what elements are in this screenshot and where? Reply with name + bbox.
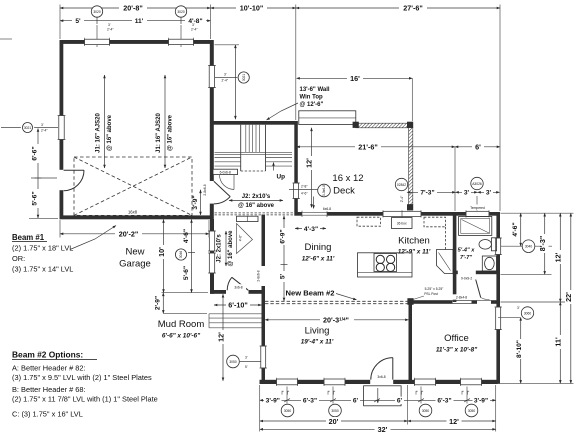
wall note 13'-6" Wall Win Top @ 12'-6": [267, 87, 330, 120]
svg-text:11'-3" x 10'-8": 11'-3" x 10'-8": [436, 347, 478, 354]
window tag 3050 c: [419, 404, 432, 417]
svg-text:New: New: [125, 247, 144, 258]
mud room bench: [237, 216, 259, 221]
dim 4'-3" (dining): [295, 225, 326, 233]
svg-text:6': 6': [353, 398, 359, 405]
svg-text:4'-8": 4'-8": [188, 18, 202, 25]
stair left run treads: [215, 158, 241, 167]
closet door under stairs: [219, 175, 234, 190]
J1 joist arrow 1: [96, 75, 114, 168]
svg-text:3'-9": 3'-9": [192, 195, 199, 209]
bath bottom wall: [453, 271, 500, 275]
front stoop: [364, 386, 402, 406]
dim row 5' / 11' / 4'-8": [60, 17, 211, 26]
mud room door: [226, 277, 249, 294]
svg-text:(3) 1.75" x 9.5" LVL with (2): (3) 1.75" x 9.5" LVL with (2) 1" Steel P…: [12, 373, 152, 382]
mud room left wall: [210, 219, 214, 294]
garage right wall: [210, 40, 214, 219]
window 1 size labels 3' 2'-4": [107, 23, 114, 32]
extension line garage right: [210, 5, 212, 40]
svg-text:5': 5': [279, 273, 286, 279]
living left wall: [262, 294, 266, 381]
bath door leaf: [476, 280, 490, 300]
breezeway dashed beam: [215, 213, 295, 215]
svg-text:6x6-8: 6x6-8: [323, 207, 331, 211]
kitchen label: [398, 236, 431, 256]
living bottom window 1: [277, 378, 298, 386]
svg-text:3': 3': [192, 23, 195, 27]
kitchen dashed counter run: [445, 227, 447, 250]
bath sink vanity: [482, 256, 496, 271]
office label: [436, 333, 478, 354]
svg-text:02842: 02842: [397, 183, 406, 187]
mud room label: [158, 319, 205, 340]
bottom ext right: [495, 385, 497, 432]
bath partition wall: [453, 212, 457, 274]
deck slider tag circle: [289, 184, 330, 208]
svg-text:Tempered: Tempered: [470, 206, 485, 210]
fridge box: [392, 218, 413, 229]
svg-text:@ 16" above: @ 16" above: [168, 114, 174, 151]
kitchen window (top wall): [383, 210, 421, 217]
garage side door (left wall): [59, 170, 84, 191]
svg-text:Win Top: Win Top: [300, 95, 323, 101]
dim 6'-10" (mud room): [214, 301, 262, 310]
svg-text:20'-8": 20'-8": [123, 4, 143, 13]
rail tag circle: [395, 178, 407, 190]
garage left window size labels: [41, 123, 48, 133]
svg-text:27'-6": 27'-6": [403, 4, 423, 13]
svg-text:20': 20': [329, 417, 339, 426]
dim 8'-10" (office right): [516, 317, 525, 383]
svg-text:(2) 1.75" x 11 7/8" LVL with (: (2) 1.75" x 11 7/8" LVL with (1) 1" Stee…: [12, 395, 158, 404]
extension line house top-left corner: [295, 5, 297, 121]
svg-text:Garage: Garage: [119, 259, 151, 270]
stairs dashed cut line: [241, 170, 266, 172]
svg-text:3050: 3050: [422, 409, 430, 413]
top-left tick: [0, 38, 12, 40]
garage top wall: [60, 40, 214, 44]
svg-text:3': 3': [517, 306, 520, 310]
slider window in deck-left wall: [292, 183, 300, 199]
svg-text:New Beam #2: New Beam #2: [286, 289, 335, 298]
svg-text:J1: 16" AJS20: J1: 16" AJS20: [96, 113, 102, 153]
svg-text:(2) 1.75" x 18" LVL: (2) 1.75" x 18" LVL: [12, 244, 73, 253]
svg-text:12': 12': [449, 417, 459, 426]
dim 11' (office right): [554, 302, 565, 383]
garage door dashed panel: [74, 157, 192, 215]
svg-text:Up: Up: [277, 174, 286, 181]
svg-text:2-8x6-8: 2-8x6-8: [257, 270, 261, 281]
window tag 3020 (garage window 2): [175, 6, 186, 47]
svg-text:6'-6" x 10'-6": 6'-6" x 10'-6": [162, 333, 201, 340]
beam #1 leader arrow: [70, 226, 116, 250]
bath right window: [495, 238, 503, 255]
stair right run treads: [266, 158, 293, 167]
svg-text:2-8x6-8: 2-8x6-8: [203, 184, 207, 195]
svg-text:11': 11': [554, 337, 563, 347]
dim 12' (living left): [216, 294, 227, 381]
kitchen upper cabinets dashed 1: [357, 217, 381, 226]
right ext bath wall: [501, 273, 552, 275]
J1 joist arrow 2: [156, 75, 174, 168]
dim 16' (deck top): [297, 74, 413, 121]
svg-text:6'-10": 6'-10": [228, 301, 248, 310]
svg-text:3': 3': [41, 123, 44, 127]
svg-text:Kitchen: Kitchen: [398, 236, 430, 247]
svg-text:3': 3': [245, 356, 248, 360]
mud room left window 1: [208, 231, 216, 251]
svg-text:4'-6": 4'-6": [512, 222, 519, 236]
J2 label (entry): [229, 194, 283, 209]
deck top rail: [356, 123, 409, 128]
bath window tempered (top wall): [466, 210, 489, 217]
svg-text:Deck: Deck: [333, 186, 355, 197]
house right wall: [496, 212, 500, 384]
extension line left bottom: [29, 217, 58, 219]
right ext top: [501, 212, 574, 214]
svg-text:Beam #2 Options:: Beam #2 Options:: [12, 350, 83, 360]
svg-text:32': 32': [378, 425, 388, 432]
dim 7'-3" (deck/bath row): [407, 188, 456, 196]
office bottom window 1: [415, 378, 436, 386]
extension line house right: [499, 5, 501, 212]
right ext office wall: [501, 301, 566, 303]
dim left 6'-6" / 5'-6": [32, 129, 42, 219]
svg-text:5.25" x 5.25": 5.25" x 5.25": [425, 287, 444, 291]
window tag 3040 (bath right): [522, 240, 535, 253]
hall wall (kitchen side): [453, 274, 457, 302]
bottom ext left: [259, 385, 261, 432]
svg-text:4'-6": 4'-6": [239, 234, 243, 241]
svg-text:2-8x4-8: 2-8x4-8: [456, 296, 467, 300]
svg-text:3': 3': [224, 73, 227, 77]
deck left wall: [294, 121, 298, 212]
svg-text:Mud Room: Mud Room: [158, 319, 205, 330]
dim 6' (right of deck): [455, 143, 500, 212]
svg-text:3-0x6-8: 3-0x6-8: [322, 185, 326, 196]
svg-text:Beam #1: Beam #1: [12, 233, 45, 242]
svg-text:10'-10": 10'-10": [240, 4, 264, 13]
svg-text:19'-4" x 11': 19'-4" x 11': [301, 339, 334, 346]
window tag 3020 (garage window 1): [91, 6, 102, 47]
window tag 3021 (garage right wall): [215, 72, 250, 83]
svg-text:C: (3) 1.75" x 16" LVL: C: (3) 1.75" x 16" LVL: [12, 410, 83, 419]
svg-text:6': 6': [475, 143, 481, 152]
office right window: [495, 307, 503, 330]
window tag 3050 d: [465, 404, 478, 417]
svg-text:Living: Living: [305, 326, 330, 337]
dim 27'-6": [296, 4, 500, 13]
svg-text:8'-10": 8'-10": [516, 340, 523, 358]
bottom window ticks: [287, 387, 467, 404]
stair stringer right: [265, 125, 267, 171]
dim 20'-8": [60, 4, 211, 13]
dim 12' (right): [554, 213, 565, 302]
garage window top 1: [85, 38, 110, 46]
dim 3'-9" (garage interior right): [192, 190, 201, 215]
front door: [370, 358, 393, 385]
deck post B: [407, 122, 413, 128]
svg-text:Dining: Dining: [305, 242, 332, 253]
svg-text:13'-6" Wall: 13'-6" Wall: [300, 87, 330, 93]
house top wall (entry/stairs): [210, 121, 298, 125]
svg-text:3': 3': [464, 190, 470, 197]
svg-text:16': 16': [350, 74, 360, 83]
window tag (mud room): [175, 249, 186, 260]
svg-text:@ 16" above: @ 16" above: [238, 203, 275, 209]
svg-text:16x8: 16x8: [128, 209, 138, 214]
extension line garage left: [59, 5, 61, 40]
svg-text:3x6-8: 3x6-8: [377, 375, 385, 379]
svg-text:6'-3": 6'-3": [303, 398, 317, 405]
office top wall: [412, 300, 500, 304]
stair stringer left: [240, 125, 242, 171]
svg-text:5': 5': [75, 18, 81, 25]
window tag A3026: [471, 177, 483, 210]
entry-garage door: [209, 181, 230, 204]
svg-text:2'-4": 2'-4": [222, 79, 229, 83]
deck slider size labels: [301, 185, 308, 196]
stair center treads: [246, 125, 260, 153]
svg-text:12': 12': [305, 158, 314, 168]
beam #2 options note: [12, 350, 158, 419]
svg-text:3x6-8: 3x6-8: [234, 286, 242, 290]
svg-text:2'-9": 2'-9": [155, 296, 162, 310]
svg-text:@ 12'-6": @ 12'-6": [300, 102, 324, 108]
svg-text:2'-4": 2'-4": [107, 28, 114, 32]
mud room door label: [231, 284, 246, 289]
dim 4'-6" / 5'-6" (mud room windows): [183, 220, 195, 293]
svg-text:@ 16" above: @ 16" above: [107, 114, 113, 151]
deck post C: [407, 204, 413, 210]
bath door opening: [458, 270, 476, 275]
kitchen island: [358, 253, 413, 277]
svg-text:12': 12': [554, 252, 563, 262]
window tag 3060 (office right): [498, 306, 534, 319]
svg-text:5'-4" x: 5'-4" x: [458, 248, 476, 254]
dim 10'-10": [211, 4, 296, 13]
svg-text:9-0x9-2: 9-0x9-2: [461, 277, 472, 281]
kitchen upper cabinets dashed 2: [424, 217, 446, 227]
svg-text:6'-3": 6'-3": [437, 398, 451, 405]
office left wall: [409, 301, 413, 380]
svg-text:2'-4": 2'-4": [41, 129, 48, 133]
new beam #2 label: [286, 289, 357, 300]
dim 12' (deck left): [305, 128, 316, 208]
svg-text:3021: 3021: [242, 74, 246, 82]
svg-text:2'-8": 2'-8": [301, 185, 308, 189]
mud room lockers chevron: [237, 224, 253, 254]
dining label: [302, 242, 335, 263]
svg-text:3021: 3021: [24, 126, 32, 130]
bottom dim row: [260, 397, 496, 405]
mud room right wall: [262, 215, 266, 294]
svg-text:(3) 1.75" x 14" LVL: (3) 1.75" x 14" LVL: [12, 265, 73, 274]
dim 12' bottom: [408, 417, 496, 426]
PSL post label: [413, 287, 444, 300]
svg-text:3050: 3050: [284, 409, 292, 413]
house bottom wall: [260, 380, 498, 384]
win-top window bump: [299, 111, 356, 125]
svg-text:7'-3": 7'-3": [420, 190, 434, 197]
svg-text:11': 11': [135, 18, 144, 25]
right ext window: [501, 245, 553, 247]
stair landing band: [215, 152, 293, 154]
svg-text:5'-6": 5'-6": [32, 191, 39, 205]
svg-text:A3026: A3026: [472, 182, 482, 186]
svg-text:3050: 3050: [468, 409, 476, 413]
dim vertical garage right: [215, 45, 240, 119]
svg-text:16 x 12: 16 x 12: [332, 173, 363, 184]
svg-text:6-0x6-8: 6-0x6-8: [220, 170, 231, 174]
svg-text:3060: 3060: [524, 311, 532, 315]
dim 8'-3" (right): [538, 213, 549, 274]
deck right rail: [409, 128, 413, 205]
svg-text:22': 22': [564, 292, 573, 302]
J2 label vertical (mud room): [217, 230, 235, 267]
window tag 3050 a: [281, 404, 294, 417]
svg-text:20'-2": 20'-2": [119, 230, 139, 239]
Up arrow: [274, 163, 286, 181]
svg-text:3046: 3046: [179, 251, 183, 259]
svg-text:4'-6": 4'-6": [301, 192, 308, 196]
slider label 6x6-8: [318, 206, 336, 211]
svg-text:3050: 3050: [331, 409, 339, 413]
svg-text:20'-31/4": 20'-31/4": [323, 315, 349, 324]
window sill marks bottom: [282, 391, 469, 394]
svg-text:36 box: 36 box: [397, 222, 407, 226]
extension line left door: [31, 177, 57, 179]
svg-text:Office: Office: [444, 333, 469, 344]
svg-text:3': 3': [108, 23, 111, 27]
svg-text:12'-6" x 11': 12'-6" x 11': [302, 256, 335, 263]
dim 10' (garage to mudroom bottom): [157, 220, 208, 293]
right ext bottom: [499, 382, 574, 384]
PSL post: [407, 298, 413, 305]
tempered label: [464, 205, 491, 211]
svg-text:3040: 3040: [525, 245, 533, 249]
garage right window size labels: [222, 73, 229, 83]
new garage label: [119, 247, 151, 270]
mud room steps: [209, 314, 262, 328]
dim 3' b: [478, 188, 500, 196]
svg-text:6'-9": 6'-9": [279, 229, 286, 243]
svg-text:8'-3": 8'-3": [538, 236, 547, 252]
new beam #2 dashed line: [265, 301, 409, 303]
office opening label 2-8x4-8: [451, 294, 472, 299]
office bottom window 2: [461, 378, 482, 386]
toilet: [479, 238, 497, 251]
svg-text:2'-4": 2'-4": [191, 28, 198, 32]
bottom ext office wall: [407, 385, 409, 425]
dim 21'-6" (deck): [297, 143, 456, 152]
svg-text:10': 10': [157, 247, 166, 257]
svg-text:12'-9" x 11': 12'-9" x 11': [398, 249, 431, 256]
mud room bottom wall: [210, 290, 265, 294]
dim 3': [456, 188, 478, 196]
svg-text:21'-6": 21'-6": [358, 143, 378, 152]
window tag 3050 b: [329, 404, 342, 417]
living left window: [260, 346, 268, 368]
svg-text:3020: 3020: [93, 10, 101, 14]
dim 20'-2" (garage bottom): [60, 220, 209, 239]
deck label 16 x 12 Deck: [332, 173, 363, 197]
garage window left wall: [1, 116, 66, 140]
dim 32': [260, 425, 496, 432]
kitchen/dining top wall: [294, 212, 500, 216]
slider opening in top wall: [302, 211, 327, 217]
window 2 size labels 3' 2'-4": [191, 23, 198, 32]
bath size label: [458, 248, 476, 261]
svg-text:J2: 2x10's: J2: 2x10's: [217, 234, 223, 263]
svg-text:J2: 2x10's: J2: 2x10's: [242, 194, 271, 200]
svg-text:@ 16" above: @ 16" above: [228, 230, 234, 267]
dim 6'-9" / 5' (dining vertical): [279, 216, 288, 301]
dim 20': [260, 417, 408, 426]
dim 4'-6" (right): [512, 213, 521, 246]
svg-text:4'-6": 4'-6": [183, 229, 190, 243]
mud-dining opening: [261, 266, 266, 286]
svg-text:7'-7": 7'-7": [460, 255, 472, 261]
beam #1 note: [12, 233, 73, 274]
kitchen counter by bath wall: [437, 250, 454, 274]
dim 22' (far right): [564, 213, 575, 383]
mud room left window 2: [208, 253, 216, 273]
garage door label 16x8: [123, 209, 142, 215]
svg-text:3050: 3050: [229, 360, 237, 364]
window tag 3050 (living left): [227, 355, 261, 369]
dim 20'-3 1/4 (living): [265, 315, 409, 324]
svg-text:3020: 3020: [177, 10, 185, 14]
deck post A: [353, 122, 359, 128]
garage left wall: [60, 40, 64, 219]
garage bottom wall: [60, 215, 214, 219]
living label: [301, 326, 334, 346]
garage window top 2: [169, 38, 194, 46]
svg-text:3'-9": 3'-9": [266, 398, 280, 405]
svg-text:12': 12': [216, 332, 225, 342]
svg-text:4'-3": 4'-3": [304, 226, 318, 233]
dim 2'-9": [155, 293, 207, 314]
svg-text:J1: 16" AJS20: J1: 16" AJS20: [156, 113, 162, 153]
svg-text:B: Better Header # 68:: B: Better Header # 68:: [12, 385, 86, 394]
svg-text:3': 3': [486, 190, 492, 197]
shower: [459, 216, 492, 235]
svg-text:6': 6': [397, 398, 403, 405]
svg-text:A: Better Header # 82:: A: Better Header # 82:: [12, 364, 86, 373]
svg-text:OR:: OR:: [12, 254, 25, 263]
svg-text:PSL Post: PSL Post: [424, 292, 438, 296]
living bottom window 2: [324, 378, 345, 386]
svg-text:3'-9": 3'-9": [474, 398, 488, 405]
garage window right wall: [208, 66, 216, 88]
window tag 3021 (garage left): [23, 123, 33, 133]
closet label box 6-0x6-8: [213, 169, 238, 174]
svg-text:5': 5': [245, 365, 248, 369]
svg-text:5'-6": 5'-6": [183, 266, 190, 280]
svg-text:6'-6": 6'-6": [32, 146, 39, 160]
svg-text:2'-4": 2'-4": [400, 195, 404, 202]
